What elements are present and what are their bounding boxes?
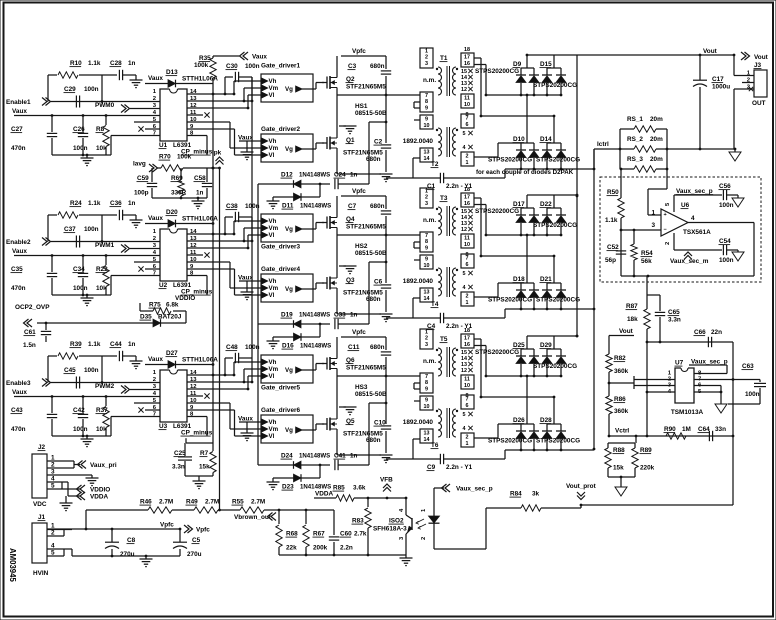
svg-text:U1: U1 [159,142,168,149]
svg-text:Vl: Vl [269,292,275,299]
svg-text:R35: R35 [199,55,211,62]
svg-text:D21: D21 [540,276,552,283]
svg-text:+: + [664,212,667,218]
svg-text:7: 7 [466,397,469,403]
svg-text:C29: C29 [64,86,76,93]
svg-text:HVIN: HVIN [33,570,49,577]
svg-text:for each couple of diodes D2PA: for each couple of diodes D2PAK [476,169,574,176]
svg-text:1N4148WS: 1N4148WS [300,484,331,491]
svg-text:Vm: Vm [269,225,279,232]
svg-text:100n: 100n [73,426,88,433]
svg-text:Vg: Vg [285,226,293,233]
svg-text:D14: D14 [540,136,552,143]
svg-text:1.1k: 1.1k [88,200,101,207]
svg-text:U3: U3 [159,423,168,430]
svg-text:10: 10 [464,242,470,248]
svg-text:VDDA: VDDA [315,491,333,498]
svg-text:D23: D23 [282,484,294,491]
svg-text:Vg: Vg [285,427,293,434]
svg-text:PWM2: PWM2 [95,383,115,390]
svg-text:Vaux_sec_p: Vaux_sec_p [456,486,493,493]
svg-text:11: 11 [464,236,470,242]
svg-text:C17: C17 [712,76,724,83]
svg-text:9: 9 [425,245,428,251]
svg-text:n.m.: n.m. [423,358,436,365]
svg-text:D9: D9 [513,61,522,68]
svg-text:8: 8 [425,380,428,386]
svg-text:100p: 100p [134,190,149,197]
svg-text:18k: 18k [627,316,638,323]
svg-text:STPS20200CG: STPS20200CG [533,363,577,370]
svg-text:C27: C27 [11,126,23,133]
svg-text:VDDIO: VDDIO [90,487,110,494]
svg-text:C11: C11 [348,344,360,351]
svg-text:100n: 100n [73,145,88,152]
svg-text:Vl: Vl [269,232,275,239]
svg-text:Vpfc: Vpfc [352,329,366,336]
svg-text:AM03945: AM03945 [8,548,17,582]
svg-text:C24: C24 [334,172,346,179]
svg-text:ISO2: ISO2 [389,518,404,525]
svg-text:STPS20200CG: STPS20200CG [475,208,519,215]
svg-text:R67: R67 [313,531,325,538]
svg-text:C25: C25 [174,450,186,457]
svg-text:Q2: Q2 [346,76,355,83]
svg-text:Q4: Q4 [346,216,355,223]
svg-text:PWM0: PWM0 [95,102,115,109]
svg-text:Vh: Vh [269,78,277,85]
svg-text:D22: D22 [540,201,552,208]
svg-text:HS3: HS3 [355,384,368,391]
svg-text:2.2n: 2.2n [340,545,353,552]
svg-text:2: 2 [421,537,427,540]
svg-text:1: 1 [425,49,428,55]
svg-text:15k: 15k [199,464,210,471]
svg-text:1N4148WS: 1N4148WS [299,312,330,319]
svg-text:R85: R85 [333,485,345,492]
svg-text:7: 7 [425,374,428,380]
svg-text:3: 3 [425,61,428,67]
svg-text:STPS20200CG: STPS20200CG [475,349,519,356]
svg-text:D25: D25 [513,342,525,349]
svg-text:Vaux: Vaux [12,248,27,255]
svg-text:14: 14 [424,437,430,443]
svg-text:Q1: Q1 [346,137,355,144]
svg-text:R89: R89 [640,447,652,454]
svg-text:D16: D16 [282,343,294,350]
svg-text:R50: R50 [607,189,619,196]
svg-text:100n: 100n [73,285,88,292]
svg-text:C54: C54 [719,238,731,245]
svg-text:Vh: Vh [269,419,277,426]
svg-text:Vout: Vout [619,328,634,335]
svg-text:R84: R84 [510,491,522,498]
svg-text:1892.0040: 1892.0040 [403,419,434,426]
svg-text:Vl: Vl [269,92,275,99]
svg-text:Vm: Vm [269,366,279,373]
svg-text:C45: C45 [64,367,76,374]
svg-text:4: 4 [463,426,466,432]
svg-text:1N4148WS: 1N4148WS [300,203,331,210]
svg-text:12: 12 [461,87,467,93]
svg-text:10: 10 [424,263,430,269]
svg-text:D11: D11 [282,203,294,210]
svg-text:1n: 1n [196,190,204,197]
svg-text:9: 9 [425,386,428,392]
svg-text:Gate_driver6: Gate_driver6 [261,407,301,414]
svg-text:14: 14 [424,296,430,302]
svg-text:16: 16 [464,342,470,348]
svg-text:D10: D10 [513,136,525,143]
svg-text:C56: C56 [719,183,731,190]
svg-text:R70: R70 [159,154,171,161]
svg-text:VDDIO: VDDIO [175,295,195,302]
svg-text:4: 4 [463,145,466,151]
svg-text:C44: C44 [110,341,122,348]
svg-text:R55: R55 [232,499,244,506]
svg-text:22n: 22n [711,329,722,336]
svg-text:Vpfc: Vpfc [160,522,174,529]
svg-text:10: 10 [424,404,430,410]
svg-text:1N4148WS: 1N4148WS [299,172,330,179]
svg-text:J2: J2 [38,444,46,451]
svg-text:3: 3 [651,222,655,229]
svg-text:U7: U7 [675,360,684,367]
svg-text:360k: 360k [614,408,629,415]
svg-text:J1: J1 [38,514,46,521]
svg-text:680n: 680n [366,156,381,163]
svg-text:2: 2 [466,435,469,441]
svg-text:1: 1 [466,160,469,166]
svg-text:56k: 56k [641,258,652,265]
svg-text:18: 18 [464,187,470,193]
svg-text:11: 11 [464,377,470,383]
svg-text:9: 9 [425,398,428,404]
svg-text:VDDA: VDDA [90,494,108,501]
svg-text:17: 17 [464,336,470,342]
svg-text:1n: 1n [350,172,358,179]
svg-text:1: 1 [425,330,428,336]
svg-text:1.5n: 1.5n [23,342,36,349]
svg-text:9: 9 [425,257,428,263]
svg-text:100k: 100k [177,154,192,161]
svg-text:R82: R82 [614,355,626,362]
svg-text:2: 2 [425,195,428,201]
svg-text:C9: C9 [427,464,436,471]
svg-text:20m: 20m [650,136,663,143]
svg-text:T3: T3 [440,195,448,202]
svg-text:1892.0040: 1892.0040 [403,278,434,285]
svg-text:Gate_driver4: Gate_driver4 [261,266,301,273]
svg-text:6: 6 [466,262,469,268]
svg-text:11: 11 [464,96,470,102]
svg-text:Q5: Q5 [346,418,355,425]
svg-text:Gate_driver2: Gate_driver2 [261,126,301,133]
svg-text:Ictrl: Ictrl [597,141,609,148]
svg-text:Gate_driver1: Gate_driver1 [261,63,301,70]
svg-text:VDC: VDC [33,501,47,508]
svg-text:C66: C66 [694,329,706,336]
svg-text:33n: 33n [715,426,726,433]
svg-text:R75: R75 [149,302,161,309]
svg-text:2: 2 [425,336,428,342]
svg-text:1.1k: 1.1k [88,341,101,348]
svg-text:470n: 470n [11,145,26,152]
svg-text:12: 12 [461,227,467,233]
svg-text:Q3: Q3 [346,277,355,284]
svg-text:C7: C7 [348,203,357,210]
svg-text:22k: 22k [286,545,297,552]
svg-text:Enable2: Enable2 [6,239,31,246]
svg-text:J3: J3 [754,62,762,69]
svg-text:1n: 1n [128,341,136,348]
svg-text:1n: 1n [350,312,358,319]
svg-text:Vh: Vh [269,278,277,285]
svg-text:3: 3 [425,342,428,348]
svg-text:360k: 360k [614,368,629,375]
svg-text:n.m.: n.m. [423,217,436,224]
svg-text:C28: C28 [110,60,122,67]
svg-text:56p: 56p [605,257,616,264]
svg-text:16: 16 [464,61,470,67]
svg-text:R83: R83 [352,518,364,525]
svg-text:Vaux_pri: Vaux_pri [90,462,117,469]
svg-text:Iavg: Iavg [133,161,146,168]
svg-text:C60: C60 [340,531,352,538]
svg-text:R39: R39 [70,341,82,348]
svg-text:OUT: OUT [752,100,766,107]
svg-text:R24: R24 [70,200,82,207]
svg-text:Vctrl: Vctrl [615,428,629,435]
svg-text:Vm: Vm [269,145,279,152]
svg-text:Q6: Q6 [346,357,355,364]
svg-text:470n: 470n [11,426,26,433]
svg-text:TSX561A: TSX561A [683,229,711,236]
svg-text:D18: D18 [513,276,525,283]
svg-text:Vaux_sec_m: Vaux_sec_m [670,258,709,265]
svg-text:C5: C5 [192,537,201,544]
svg-text:R49: R49 [186,499,198,506]
svg-text:R54: R54 [641,250,653,257]
svg-text:CP_minus: CP_minus [181,430,213,437]
svg-text:Vpfc: Vpfc [352,48,366,55]
svg-text:2: 2 [466,154,469,160]
svg-text:680n: 680n [370,63,385,70]
svg-text:PWM1: PWM1 [95,242,115,249]
svg-text:Vg: Vg [285,286,293,293]
svg-text:2.7M: 2.7M [159,499,173,506]
svg-text:17: 17 [464,195,470,201]
svg-text:2: 2 [466,294,469,300]
svg-text:2.7M: 2.7M [205,499,219,506]
svg-text:D35: D35 [140,314,152,321]
svg-text:680n: 680n [370,344,385,351]
svg-text:C58: C58 [194,175,206,182]
svg-text:470n: 470n [11,285,26,292]
svg-text:C48: C48 [226,344,238,351]
svg-text:2: 2 [425,55,428,61]
svg-text:270u: 270u [120,551,135,558]
svg-text:C35: C35 [11,266,23,273]
svg-text:Vout: Vout [703,48,718,55]
svg-text:R86: R86 [614,396,626,403]
svg-text:Vaux: Vaux [12,108,27,115]
svg-text:D13: D13 [166,69,178,76]
svg-text:Vl: Vl [269,433,275,440]
svg-text:T1: T1 [440,55,448,62]
svg-text:18: 18 [464,328,470,334]
svg-text:C59: C59 [137,175,149,182]
svg-text:12: 12 [461,368,467,374]
svg-text:1n: 1n [128,60,136,67]
svg-text:100n: 100n [745,391,760,398]
svg-text:C8: C8 [127,537,136,544]
svg-text:C30: C30 [226,63,238,70]
svg-text:Vpfc: Vpfc [196,527,210,534]
svg-text:08515-50B: 08515-50B [355,250,387,257]
svg-text:14: 14 [424,156,430,162]
svg-text:3k: 3k [532,491,540,498]
svg-text:Vbrown_out: Vbrown_out [234,514,272,521]
svg-text:SFH618A-3: SFH618A-3 [373,526,407,533]
svg-text:1N4148WS: 1N4148WS [299,453,330,460]
svg-text:HS2: HS2 [355,243,368,250]
svg-text:680n: 680n [366,296,381,303]
svg-text:20m: 20m [650,116,663,123]
svg-text:R87: R87 [626,303,638,310]
svg-text:100n: 100n [84,367,99,374]
svg-text:2.7k: 2.7k [354,531,367,538]
svg-text:R68: R68 [286,531,298,538]
svg-text:1: 1 [51,523,55,530]
svg-text:1.1k: 1.1k [88,60,101,67]
svg-text:R46: R46 [140,499,152,506]
svg-text:9: 9 [425,105,428,111]
svg-text:100n: 100n [245,63,260,70]
svg-text:C37: C37 [64,226,76,233]
svg-text:−: − [664,227,667,233]
svg-text:D29: D29 [540,342,552,349]
svg-text:8: 8 [425,239,428,245]
svg-text:C61: C61 [24,329,36,336]
svg-text:7: 7 [425,93,428,99]
svg-text:13: 13 [424,290,430,296]
svg-text:Vg: Vg [285,86,293,93]
svg-text:D12: D12 [281,172,293,179]
svg-text:3: 3 [425,201,428,207]
svg-text:17: 17 [464,55,470,61]
svg-text:1892.0040: 1892.0040 [403,138,434,145]
svg-text:08515-50B: 08515-50B [355,110,387,117]
svg-text:D19: D19 [281,312,293,319]
svg-text:D24: D24 [281,453,293,460]
svg-text:7: 7 [466,256,469,262]
svg-text:C38: C38 [226,203,238,210]
svg-text:VFB: VFB [380,477,393,484]
svg-text:100n: 100n [84,86,99,93]
svg-text:100n: 100n [84,226,99,233]
svg-text:1: 1 [425,189,428,195]
svg-text:C63: C63 [742,363,754,370]
svg-text:Vg: Vg [285,146,293,153]
svg-text:13: 13 [424,431,430,437]
svg-text:6: 6 [466,403,469,409]
svg-text:Ipk: Ipk [212,150,222,157]
svg-text:3.6k: 3.6k [353,485,366,492]
svg-text:Vm: Vm [269,426,279,433]
svg-text:Vh: Vh [269,218,277,225]
svg-text:RS_1: RS_1 [627,116,643,123]
svg-text:18: 18 [464,47,470,53]
svg-text:Vg: Vg [285,367,293,374]
svg-text:8: 8 [425,99,428,105]
svg-text:1M: 1M [682,426,691,433]
svg-text:Vaux_sec_p: Vaux_sec_p [676,188,713,195]
svg-text:T5: T5 [440,336,448,343]
svg-text:U2: U2 [159,282,168,289]
svg-text:R7: R7 [200,450,209,457]
svg-text:1: 1 [651,210,655,217]
svg-text:13: 13 [424,150,430,156]
svg-text:3.3n: 3.3n [668,317,681,324]
svg-text:5: 5 [463,131,466,137]
svg-text:TSM1013A: TSM1013A [671,409,704,416]
svg-text:1n: 1n [128,200,136,207]
svg-text:STF21N65M5: STF21N65M5 [346,224,386,231]
svg-text:Vpfc: Vpfc [352,188,366,195]
svg-text:7: 7 [425,233,428,239]
svg-text:D15: D15 [540,61,552,68]
svg-text:6: 6 [466,122,469,128]
svg-text:Gate_driver5: Gate_driver5 [261,385,301,392]
svg-text:1n: 1n [350,453,358,460]
svg-text:RS_2: RS_2 [627,136,643,143]
svg-text:9: 9 [425,117,428,123]
svg-text:C36: C36 [110,200,122,207]
svg-text:Vl: Vl [269,152,275,159]
svg-text:1: 1 [466,441,469,447]
svg-text:5: 5 [463,271,466,277]
svg-text:1: 1 [466,300,469,306]
svg-text:680n: 680n [370,203,385,210]
svg-text:HS1: HS1 [355,103,368,110]
svg-text:1000u: 1000u [712,84,730,91]
svg-text:4: 4 [463,285,466,291]
svg-text:1.1k: 1.1k [605,217,618,224]
svg-text:Vm: Vm [269,285,279,292]
svg-text:16: 16 [464,201,470,207]
svg-text:2.7M: 2.7M [251,499,265,506]
svg-text:C41: C41 [334,453,346,460]
svg-text:20m: 20m [650,156,663,163]
svg-text:C3: C3 [348,63,357,70]
svg-text:2: 2 [665,242,671,245]
svg-text:7: 7 [466,116,469,122]
svg-text:6.8k: 6.8k [166,302,179,309]
svg-text:100n: 100n [719,202,734,209]
svg-text:Enable3: Enable3 [6,380,31,387]
svg-text:10: 10 [464,102,470,108]
svg-text:R88: R88 [613,447,625,454]
svg-text:C33: C33 [334,312,346,319]
svg-text:RS_3: RS_3 [627,156,643,163]
svg-text:1N4148WS: 1N4148WS [300,343,331,350]
svg-text:10: 10 [464,383,470,389]
svg-text:5: 5 [463,412,466,418]
svg-text:100k: 100k [194,62,209,69]
svg-text:2.2n - Y1: 2.2n - Y1 [446,464,473,471]
svg-text:Vh: Vh [269,359,277,366]
